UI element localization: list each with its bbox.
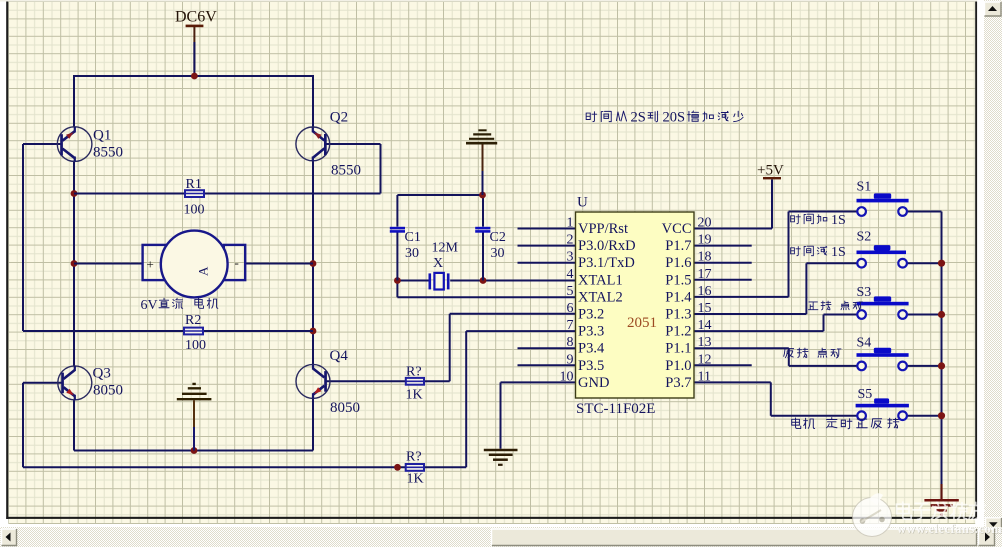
svg-text:VCC: VCC xyxy=(662,221,692,237)
wire Q4 emitter drop to rail xyxy=(312,398,314,451)
label 电机 定时 正反转 xyxy=(792,418,899,429)
svg-text:1K: 1K xyxy=(406,388,423,403)
svg-text:STC-11F02E: STC-11F02E xyxy=(576,401,655,417)
label 反转 点动 xyxy=(784,348,841,358)
svg-text:20S: 20S xyxy=(663,110,686,126)
wire P1.2 pin14 to S3 xyxy=(694,315,857,332)
transistor Q3 (NPN 8050) xyxy=(58,366,123,401)
label 时间减1S xyxy=(791,245,846,260)
wire stem to top ground xyxy=(482,170,484,195)
svg-text:C2: C2 xyxy=(490,230,506,245)
svg-text:P3.1/TxD: P3.1/TxD xyxy=(578,255,635,271)
svg-text:11: 11 xyxy=(698,369,711,384)
svg-text:1S: 1S xyxy=(831,213,846,228)
node junction rail/S4 xyxy=(938,362,945,369)
resistor R? 1K (Q4 base) xyxy=(406,365,425,403)
svg-text:6: 6 xyxy=(567,301,574,316)
svg-text:3: 3 xyxy=(567,250,574,265)
ground (XTAL filter) xyxy=(466,130,497,143)
horizontal scrollbar thumb xyxy=(491,529,977,546)
svg-text:P3.0/RxD: P3.0/RxD xyxy=(578,238,636,254)
svg-text:6V: 6V xyxy=(141,298,158,313)
wire P1.3 pin15 to S2 xyxy=(694,263,857,314)
svg-text:R1: R1 xyxy=(186,177,202,192)
svg-text:U: U xyxy=(577,195,588,211)
node junction rail / ground xyxy=(191,447,198,454)
label 正转 点动 xyxy=(808,301,862,310)
wire R1 row: node A to Q2 base link xyxy=(74,144,381,194)
svg-text:S4: S4 xyxy=(857,336,872,351)
svg-text:4: 4 xyxy=(567,267,574,282)
svg-text:R?: R? xyxy=(406,450,422,465)
svg-text:10: 10 xyxy=(560,369,574,384)
node junction top rail / DC6V xyxy=(191,73,198,80)
resistor R1 xyxy=(184,177,205,218)
svg-text:P1.1: P1.1 xyxy=(665,341,691,357)
svg-text:100: 100 xyxy=(184,203,205,218)
svg-text:P3.5: P3.5 xyxy=(578,358,604,374)
svg-text:17: 17 xyxy=(698,267,712,282)
wire top rail xyxy=(74,75,313,77)
capacitor C2 30 xyxy=(475,228,506,261)
crystal X 12M xyxy=(430,241,459,290)
svg-text:7: 7 xyxy=(567,318,574,333)
svg-text:VPP/Rst: VPP/Rst xyxy=(578,221,628,237)
node junction rail/S2 xyxy=(938,260,945,267)
svg-text:Q4: Q4 xyxy=(330,348,349,364)
transistor Q1 (PNP 8550) xyxy=(57,127,123,162)
wire P1.1 pin13 to S4 xyxy=(694,348,857,366)
svg-text:www.elecfans.com: www.elecfans.com xyxy=(897,522,1002,536)
wire bottom emitter rail xyxy=(74,450,313,452)
svg-text:P3.7: P3.7 xyxy=(665,375,691,391)
watermark logo circle xyxy=(853,493,892,536)
vertical scrollbar track xyxy=(984,0,1002,530)
svg-text:S3: S3 xyxy=(857,285,872,300)
svg-text:2: 2 xyxy=(567,233,574,248)
svg-text:S1: S1 xyxy=(857,180,872,195)
svg-text:1K: 1K xyxy=(407,472,424,487)
svg-text:8050: 8050 xyxy=(330,400,360,416)
wire DC6V stem xyxy=(193,42,195,76)
switch S3 xyxy=(857,285,909,319)
svg-text:C1: C1 xyxy=(405,230,421,245)
wire S4 right xyxy=(907,365,942,367)
sheet border left xyxy=(6,0,8,519)
wire Q3 emitter drop to rail xyxy=(73,400,75,451)
svg-text:14: 14 xyxy=(698,318,712,333)
transistor Q4 (NPN 8050, mirrored) xyxy=(296,348,360,416)
wire S2 right xyxy=(907,262,942,264)
svg-text:8550: 8550 xyxy=(93,145,123,161)
wire GND pin 10 xyxy=(501,382,576,448)
svg-text:GND: GND xyxy=(578,375,609,391)
node junction B / motor right xyxy=(310,260,317,267)
svg-text:P1.3: P1.3 xyxy=(665,307,691,323)
ground (switch rail, bottom right) xyxy=(924,484,958,515)
switch S2 xyxy=(857,230,907,268)
svg-text:P1.5: P1.5 xyxy=(665,272,691,288)
svg-text:Q2: Q2 xyxy=(330,110,348,126)
svg-text:P3.3: P3.3 xyxy=(578,324,604,340)
svg-text:2S: 2S xyxy=(631,110,646,126)
node junction on base bus xyxy=(394,464,401,471)
left window margin xyxy=(0,0,6,547)
watermark text 电子发烧友 xyxy=(897,502,985,519)
horizontal scrollbar track xyxy=(0,527,1002,547)
wire switch right rail xyxy=(907,212,942,487)
node junction rail/S5 xyxy=(938,412,945,419)
svg-text:30: 30 xyxy=(405,246,419,261)
switch S1 xyxy=(857,180,909,216)
WATERMARK xyxy=(853,493,1002,536)
pin stubs IC right 19,18,17 xyxy=(694,246,752,280)
label 6V直流 电机 xyxy=(141,298,218,313)
sheet border bottom xyxy=(6,517,977,519)
power port +5V xyxy=(757,163,784,180)
svg-text:S5: S5 xyxy=(858,387,873,402)
resistor R? 1K (Q3 base) xyxy=(406,450,424,487)
svg-text:P1.4: P1.4 xyxy=(665,289,692,305)
wire S5 right xyxy=(907,415,942,417)
wire C2 branch xyxy=(482,195,484,281)
svg-text:12: 12 xyxy=(698,352,712,367)
svg-text:19: 19 xyxy=(698,233,712,248)
node junction crystal right / C2 xyxy=(480,277,487,284)
bottom gutter xyxy=(0,524,1002,529)
node junction A / R1 xyxy=(71,190,78,197)
vertical scrollbar up button xyxy=(984,2,1001,17)
top window edge xyxy=(0,0,1002,2)
wire Q4 base to R? xyxy=(327,380,407,382)
resistor R2 xyxy=(184,313,206,353)
wire C1 branch xyxy=(396,195,398,281)
motor M (6V DC motor) xyxy=(143,231,246,298)
svg-text:Q1: Q1 xyxy=(93,128,111,144)
svg-text:8050: 8050 xyxy=(93,383,123,399)
wire R? to P3.2 pin 6 xyxy=(424,314,576,382)
svg-text:X: X xyxy=(433,256,443,271)
svg-text:R2: R2 xyxy=(185,313,201,328)
label 时间加1S xyxy=(791,213,846,228)
svg-text:18: 18 xyxy=(698,250,712,265)
transistor Q2 (PNP 8550, mirrored) xyxy=(296,110,361,179)
capacitor C1 30 xyxy=(390,228,421,261)
node junction crystal left / C1 xyxy=(394,277,401,284)
node junction B / R2 xyxy=(310,328,317,335)
svg-text:13: 13 xyxy=(698,335,712,350)
pin stubs IC left pins 8,9 xyxy=(518,348,576,365)
label title 时间从2S到20S增加减少 xyxy=(586,110,743,126)
wire Q1 emitter drop xyxy=(73,75,75,128)
svg-text:2051: 2051 xyxy=(627,315,657,331)
svg-text:9: 9 xyxy=(567,352,574,367)
svg-text:P3.4: P3.4 xyxy=(578,341,605,357)
svg-text:1S: 1S xyxy=(831,245,846,260)
pin stubs IC left pins 1,2,3 xyxy=(518,229,576,263)
pin stub IC right 12 xyxy=(694,364,752,366)
wire capacitor top rail xyxy=(397,194,482,196)
svg-text:R?: R? xyxy=(406,365,422,380)
svg-text:P1.6: P1.6 xyxy=(665,255,691,271)
svg-text:P1.2: P1.2 xyxy=(665,324,691,340)
svg-text:12M: 12M xyxy=(432,241,459,256)
node junction cap rail / ground stem xyxy=(479,192,486,199)
svg-text:P1.0: P1.0 xyxy=(665,358,691,374)
svg-text:8: 8 xyxy=(567,335,574,350)
svg-text:100: 100 xyxy=(185,338,206,353)
power port DC6V xyxy=(175,9,217,71)
switch S5 xyxy=(856,387,909,420)
ground (IC GND) xyxy=(484,450,518,465)
wire node B vertical (Q2 collector to Q4 collector) xyxy=(312,160,314,366)
wire Q3 base to lower-left bus xyxy=(23,331,576,467)
wire Q1 base to left bus xyxy=(23,144,313,331)
svg-text:DC6V: DC6V xyxy=(175,9,217,26)
svg-text:+5V: +5V xyxy=(757,163,784,179)
svg-text:P3.2: P3.2 xyxy=(578,307,604,323)
sheet border right xyxy=(975,0,977,519)
node junction A / motor left xyxy=(71,260,78,267)
svg-text:+: + xyxy=(147,257,154,272)
vertical scrollbar down button xyxy=(985,517,1002,530)
svg-text:Q3: Q3 xyxy=(93,366,111,382)
wire Q2 emitter drop xyxy=(312,75,314,129)
wire node A vertical (Q1 collector to Q3 collector) xyxy=(73,161,75,367)
IC U STC-11F02E (2051) xyxy=(560,195,712,418)
svg-text:-: - xyxy=(235,255,239,270)
svg-text:XTAL2: XTAL2 xyxy=(578,289,623,305)
svg-text:8550: 8550 xyxy=(331,163,361,179)
right gutter xyxy=(977,0,984,530)
wire VCC pin 20 to +5V xyxy=(694,180,772,229)
wire motor right xyxy=(245,263,313,265)
ground (emitter rail) xyxy=(177,384,212,451)
wire crystal to XTAL2 pin 5 xyxy=(397,281,575,298)
svg-text:XTAL1: XTAL1 xyxy=(578,272,623,288)
switch S4 xyxy=(857,336,909,371)
horizontal scrollbar left button xyxy=(1,529,17,546)
wire motor left xyxy=(74,263,144,265)
wire P3.7 pin11 to S5 xyxy=(694,382,857,415)
svg-text:15: 15 xyxy=(698,301,712,316)
wire S3 right xyxy=(907,314,942,316)
svg-text:20: 20 xyxy=(698,216,712,231)
svg-text:16: 16 xyxy=(698,284,712,299)
wire P1.4 pin16 to S1 xyxy=(694,212,857,297)
horizontal scrollbar right button xyxy=(978,529,995,546)
node junction rail/S3 xyxy=(938,311,945,318)
wire crystal row to XTAL1 pin 4 xyxy=(397,280,575,282)
svg-text:P1.7: P1.7 xyxy=(665,238,691,254)
svg-text:A: A xyxy=(196,266,211,276)
svg-text:S2: S2 xyxy=(857,230,872,245)
svg-text:1: 1 xyxy=(567,216,574,231)
svg-text:5: 5 xyxy=(567,284,574,299)
svg-text:30: 30 xyxy=(491,246,505,261)
